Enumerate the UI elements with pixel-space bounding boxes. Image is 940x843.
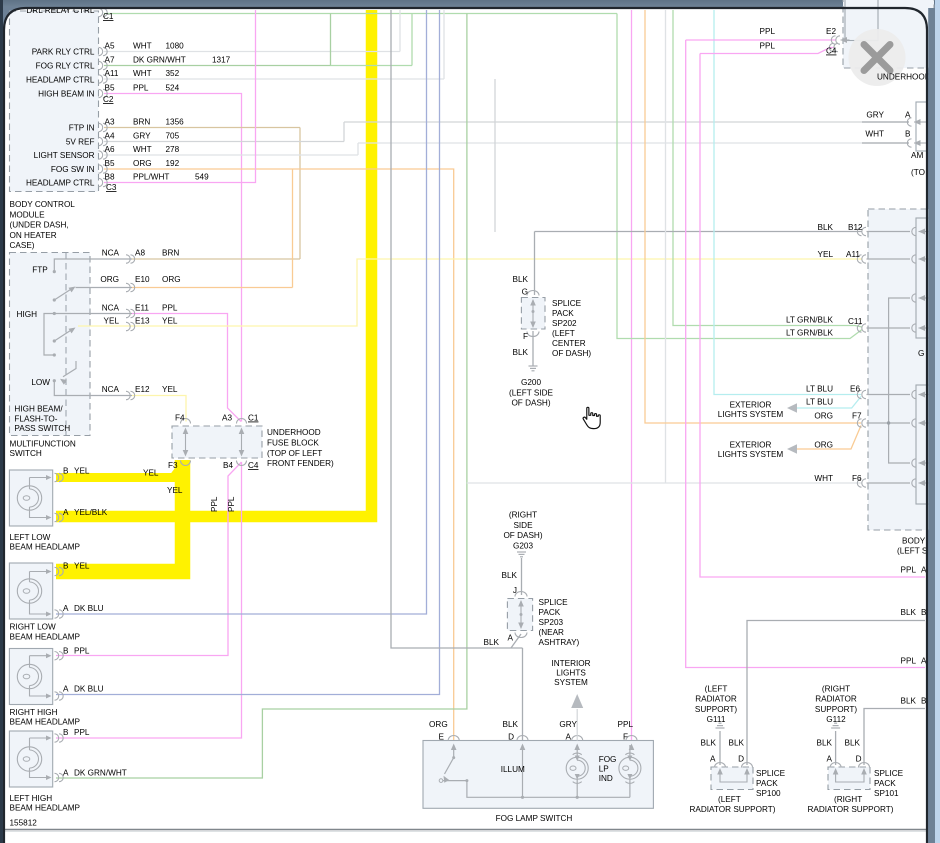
- svg-text:WHT: WHT: [814, 474, 833, 483]
- svg-text:1080: 1080: [166, 42, 185, 51]
- svg-text:BLK: BLK: [901, 697, 917, 706]
- svg-text:LT GRN/BLK: LT GRN/BLK: [786, 316, 834, 325]
- svg-text:HIGH BEAM/: HIGH BEAM/: [14, 405, 63, 414]
- svg-text:B4: B4: [223, 461, 233, 470]
- svg-text:SP203: SP203: [539, 618, 564, 627]
- svg-text:YEL: YEL: [104, 317, 120, 326]
- svg-text:OF DASH): OF DASH): [511, 399, 550, 408]
- svg-text:549: 549: [195, 173, 209, 182]
- svg-text:AM: AM: [911, 151, 923, 160]
- svg-text:BLK: BLK: [484, 638, 500, 647]
- svg-text:B12: B12: [848, 223, 863, 232]
- svg-text:FOG LAMP SWITCH: FOG LAMP SWITCH: [496, 814, 573, 823]
- svg-text:YEL: YEL: [162, 317, 178, 326]
- svg-text:1317: 1317: [212, 56, 231, 65]
- svg-text:E12: E12: [135, 385, 150, 394]
- svg-text:J: J: [513, 586, 517, 595]
- svg-text:A: A: [63, 508, 69, 517]
- svg-text:CASE): CASE): [10, 241, 35, 250]
- svg-text:B5: B5: [105, 159, 115, 168]
- svg-text:192: 192: [166, 159, 180, 168]
- svg-text:SUPPORT): SUPPORT): [815, 705, 857, 714]
- svg-text:(TO: (TO: [911, 168, 925, 177]
- svg-text:PPL: PPL: [74, 728, 90, 737]
- svg-text:LEFT LOW: LEFT LOW: [10, 533, 51, 542]
- svg-text:C4: C4: [826, 47, 837, 56]
- svg-text:PPL: PPL: [74, 647, 90, 656]
- svg-text:HIGH BEAM IN: HIGH BEAM IN: [38, 90, 94, 99]
- svg-text:SPLICE: SPLICE: [874, 769, 904, 778]
- svg-text:BODY: BODY: [902, 537, 926, 546]
- svg-text:A: A: [566, 733, 572, 742]
- svg-text:B: B: [63, 647, 69, 656]
- svg-text:F3: F3: [168, 461, 178, 470]
- svg-text:SIDE: SIDE: [513, 521, 533, 530]
- svg-text:WHT: WHT: [133, 69, 152, 78]
- svg-text:A: A: [905, 111, 911, 120]
- svg-text:BLK: BLK: [845, 739, 861, 748]
- svg-text:FUSE BLOCK: FUSE BLOCK: [267, 438, 319, 447]
- svg-text:G: G: [522, 288, 528, 297]
- svg-text:LT BLU: LT BLU: [806, 385, 833, 394]
- svg-text:PACK: PACK: [874, 779, 896, 788]
- svg-text:D: D: [738, 755, 744, 764]
- svg-text:E10: E10: [135, 275, 150, 284]
- svg-text:GRY: GRY: [866, 111, 884, 120]
- svg-text:FOG: FOG: [599, 755, 617, 764]
- svg-text:B: B: [905, 130, 911, 139]
- svg-text:IND: IND: [599, 774, 613, 783]
- svg-text:RADIATOR: RADIATOR: [695, 695, 737, 704]
- svg-text:(LEFT: (LEFT: [552, 329, 575, 338]
- svg-text:BEAM HEADLAMP: BEAM HEADLAMP: [10, 718, 81, 727]
- svg-text:LT BLU: LT BLU: [806, 398, 833, 407]
- svg-text:BRN: BRN: [162, 248, 179, 257]
- svg-text:UNDERHOOD: UNDERHOOD: [267, 428, 321, 437]
- svg-text:HEADLAMP CTRL: HEADLAMP CTRL: [26, 76, 95, 85]
- svg-text:FOG SW IN: FOG SW IN: [51, 165, 95, 174]
- svg-text:BEAM HEADLAMP: BEAM HEADLAMP: [10, 542, 81, 551]
- svg-text:FOG RLY CTRL: FOG RLY CTRL: [36, 62, 95, 71]
- svg-text:YEL: YEL: [74, 466, 90, 475]
- svg-text:D: D: [508, 733, 514, 742]
- svg-text:(UNDER DASH,: (UNDER DASH,: [10, 221, 69, 230]
- svg-text:DK BLU: DK BLU: [74, 685, 104, 694]
- svg-text:SUPPORT): SUPPORT): [695, 705, 737, 714]
- svg-text:PPL: PPL: [618, 720, 634, 729]
- svg-text:E2: E2: [826, 27, 836, 36]
- svg-text:INTERIOR: INTERIOR: [551, 659, 590, 668]
- svg-text:NCA: NCA: [102, 385, 120, 394]
- svg-text:SPLICE: SPLICE: [756, 769, 786, 778]
- svg-text:BLK: BLK: [513, 275, 529, 284]
- svg-text:SPLICE: SPLICE: [539, 598, 569, 607]
- svg-text:(LEFT: (LEFT: [718, 795, 741, 804]
- svg-text:705: 705: [166, 132, 180, 141]
- svg-text:524: 524: [166, 84, 180, 93]
- svg-text:F7: F7: [852, 412, 862, 421]
- svg-text:DK BLU: DK BLU: [74, 604, 104, 613]
- svg-text:BLK: BLK: [503, 720, 519, 729]
- svg-text:PARK RLY CTRL: PARK RLY CTRL: [32, 48, 95, 57]
- svg-text:LIGHT SENSOR: LIGHT SENSOR: [34, 151, 95, 160]
- svg-text:BLK: BLK: [502, 571, 518, 580]
- svg-text:PACK: PACK: [539, 608, 561, 617]
- svg-text:C1: C1: [103, 12, 114, 21]
- svg-text:D: D: [856, 755, 862, 764]
- svg-text:ORG: ORG: [100, 275, 119, 284]
- svg-text:LT GRN/BLK: LT GRN/BLK: [786, 329, 834, 338]
- svg-text:BODY CONTROL: BODY CONTROL: [10, 200, 76, 209]
- svg-text:A3: A3: [222, 414, 232, 423]
- svg-text:A: A: [63, 769, 69, 778]
- svg-text:RIGHT HIGH: RIGHT HIGH: [10, 708, 58, 717]
- svg-text:NCA: NCA: [102, 248, 120, 257]
- svg-text:F: F: [523, 332, 528, 341]
- svg-text:RADIATOR SUPPORT): RADIATOR SUPPORT): [690, 805, 776, 814]
- svg-text:GRY: GRY: [559, 720, 577, 729]
- svg-text:LEFT HIGH: LEFT HIGH: [10, 794, 53, 803]
- svg-text:C11: C11: [848, 317, 863, 326]
- svg-text:A: A: [827, 755, 833, 764]
- svg-text:F4: F4: [175, 414, 185, 423]
- svg-text:PASS SWITCH: PASS SWITCH: [14, 424, 70, 433]
- svg-text:PPL: PPL: [760, 27, 776, 36]
- svg-text:A7: A7: [105, 56, 115, 65]
- svg-text:LIGHTS: LIGHTS: [556, 669, 586, 678]
- svg-text:B: B: [63, 562, 69, 571]
- svg-text:(LEFT S: (LEFT S: [897, 547, 928, 556]
- svg-text:C3: C3: [106, 183, 117, 192]
- svg-text:BLK: BLK: [817, 739, 833, 748]
- svg-text:DK GRN/WHT: DK GRN/WHT: [133, 56, 186, 65]
- svg-text:MODULE: MODULE: [10, 210, 46, 219]
- svg-text:ORG: ORG: [429, 720, 448, 729]
- svg-text:BEAM HEADLAMP: BEAM HEADLAMP: [10, 632, 81, 641]
- svg-text:ON HEATER: ON HEATER: [10, 231, 57, 240]
- svg-text:(RIGHT: (RIGHT: [834, 795, 862, 804]
- svg-text:WHT: WHT: [133, 42, 152, 51]
- svg-text:EXTERIOR: EXTERIOR: [730, 401, 772, 410]
- svg-text:PPL: PPL: [760, 42, 776, 51]
- svg-text:CENTER: CENTER: [552, 339, 586, 348]
- svg-text:WHT: WHT: [133, 145, 152, 154]
- svg-text:OF DASH): OF DASH): [503, 531, 542, 540]
- svg-text:C1: C1: [248, 414, 259, 423]
- svg-text:BLK: BLK: [513, 348, 529, 357]
- svg-text:BLK: BLK: [901, 608, 917, 617]
- svg-text:ILLUM: ILLUM: [501, 765, 525, 774]
- svg-text:PACK: PACK: [552, 309, 574, 318]
- svg-text:A4: A4: [105, 132, 115, 141]
- svg-text:HEADLAMP CTRL: HEADLAMP CTRL: [26, 179, 95, 188]
- svg-text:SYSTEM: SYSTEM: [554, 678, 588, 687]
- svg-text:PPL: PPL: [227, 496, 236, 512]
- svg-text:B8: B8: [105, 173, 115, 182]
- svg-text:A: A: [63, 604, 69, 613]
- svg-text:5V REF: 5V REF: [66, 138, 95, 147]
- svg-text:MULTIFUNCTION: MULTIFUNCTION: [10, 440, 76, 449]
- svg-text:GRY: GRY: [133, 132, 151, 141]
- svg-text:(TOP OF LEFT: (TOP OF LEFT: [267, 449, 322, 458]
- svg-text:YEL: YEL: [162, 385, 178, 394]
- svg-text:RADIATOR: RADIATOR: [815, 695, 857, 704]
- svg-text:PPL: PPL: [901, 657, 917, 666]
- svg-text:OF DASH): OF DASH): [552, 349, 591, 358]
- svg-text:(LEFT: (LEFT: [705, 685, 728, 694]
- svg-text:(RIGHT: (RIGHT: [822, 685, 850, 694]
- svg-text:ORG: ORG: [814, 441, 833, 450]
- svg-text:A6: A6: [105, 145, 115, 154]
- svg-text:SP101: SP101: [874, 789, 899, 798]
- svg-text:SP100: SP100: [756, 789, 781, 798]
- svg-text:FTP IN: FTP IN: [69, 124, 95, 133]
- svg-text:E13: E13: [135, 317, 150, 326]
- svg-text:BRN: BRN: [133, 118, 150, 127]
- svg-text:FTP: FTP: [32, 265, 48, 274]
- svg-text:G200: G200: [521, 378, 541, 387]
- svg-text:PPL: PPL: [210, 496, 219, 512]
- svg-text:ORG: ORG: [133, 159, 152, 168]
- svg-text:A3: A3: [105, 118, 115, 127]
- svg-text:B: B: [63, 466, 69, 475]
- svg-text:SPLICE: SPLICE: [552, 299, 582, 308]
- svg-text:BLK: BLK: [701, 739, 717, 748]
- svg-text:YEL: YEL: [167, 486, 183, 495]
- svg-text:F6: F6: [852, 474, 862, 483]
- svg-text:WHT: WHT: [865, 130, 884, 139]
- svg-text:F: F: [623, 733, 628, 742]
- svg-text:C4: C4: [248, 461, 259, 470]
- svg-text:A8: A8: [135, 248, 145, 257]
- svg-text:C2: C2: [103, 95, 114, 104]
- svg-text:SP202: SP202: [552, 319, 577, 328]
- svg-text:LOW: LOW: [31, 378, 50, 387]
- svg-text:RADIATOR SUPPORT): RADIATOR SUPPORT): [808, 805, 894, 814]
- svg-text:A5: A5: [105, 42, 115, 51]
- svg-text:LP: LP: [599, 765, 610, 774]
- svg-text:LIGHTS SYSTEM: LIGHTS SYSTEM: [718, 410, 784, 419]
- svg-text:YEL: YEL: [818, 250, 834, 259]
- svg-text:A: A: [63, 685, 69, 694]
- svg-text:ORG: ORG: [814, 412, 833, 421]
- svg-text:PPL: PPL: [162, 303, 178, 312]
- svg-text:YEL: YEL: [143, 469, 159, 478]
- svg-text:B5: B5: [105, 84, 115, 93]
- svg-text:(NEAR: (NEAR: [539, 628, 565, 637]
- svg-text:A: A: [710, 755, 716, 764]
- svg-text:DK GRN/WHT: DK GRN/WHT: [74, 769, 127, 778]
- svg-text:B: B: [63, 728, 69, 737]
- svg-text:NCA: NCA: [102, 303, 120, 312]
- svg-text:UNDERHOOD: UNDERHOOD: [877, 73, 931, 82]
- svg-text:ORG: ORG: [162, 275, 181, 284]
- svg-text:YEL/BLK: YEL/BLK: [74, 508, 108, 517]
- svg-text:ASHTRAY): ASHTRAY): [539, 638, 580, 647]
- svg-text:(LEFT SIDE: (LEFT SIDE: [509, 388, 554, 397]
- svg-text:RIGHT LOW: RIGHT LOW: [10, 623, 57, 632]
- svg-text:155812: 155812: [10, 819, 38, 828]
- svg-text:FLASH-TO-: FLASH-TO-: [14, 414, 57, 423]
- svg-text:PPL/WHT: PPL/WHT: [133, 173, 169, 182]
- svg-text:PPL: PPL: [901, 566, 917, 575]
- svg-text:352: 352: [166, 69, 180, 78]
- svg-text:G: G: [918, 349, 924, 358]
- svg-text:HIGH: HIGH: [17, 310, 38, 319]
- svg-text:SWITCH: SWITCH: [10, 449, 42, 458]
- svg-text:1356: 1356: [166, 118, 185, 127]
- svg-text:E: E: [439, 733, 445, 742]
- svg-text:E11: E11: [135, 303, 149, 312]
- svg-text:G203: G203: [513, 541, 533, 550]
- svg-text:LIGHTS SYSTEM: LIGHTS SYSTEM: [718, 450, 784, 459]
- svg-text:278: 278: [166, 145, 180, 154]
- svg-text:G111: G111: [707, 715, 726, 724]
- svg-text:G112: G112: [826, 715, 846, 724]
- svg-text:BLK: BLK: [729, 739, 745, 748]
- svg-text:BLK: BLK: [818, 223, 834, 232]
- svg-text:A11: A11: [105, 69, 119, 78]
- svg-text:YEL: YEL: [74, 562, 90, 571]
- svg-text:PPL: PPL: [133, 84, 149, 93]
- svg-text:PACK: PACK: [756, 779, 778, 788]
- svg-text:BEAM HEADLAMP: BEAM HEADLAMP: [10, 804, 81, 813]
- svg-text:EXTERIOR: EXTERIOR: [730, 441, 772, 450]
- svg-text:FRONT FENDER): FRONT FENDER): [267, 459, 334, 468]
- svg-text:A11: A11: [846, 250, 860, 259]
- svg-text:E6: E6: [850, 385, 860, 394]
- svg-text:(RIGHT: (RIGHT: [509, 511, 537, 520]
- svg-text:A: A: [508, 634, 514, 643]
